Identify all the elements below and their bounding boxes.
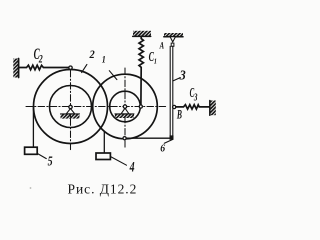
svg-text:B: B (176, 109, 182, 122)
svg-text:6: 6 (160, 143, 166, 155)
svg-text:5: 5 (48, 153, 53, 169)
svg-text:1: 1 (102, 54, 106, 65)
svg-text:2: 2 (89, 49, 96, 62)
svg-text:Рис. Д12.2: Рис. Д12.2 (68, 182, 138, 197)
svg-text:4: 4 (129, 159, 135, 175)
svg-text:1: 1 (154, 58, 157, 66)
svg-text:3: 3 (179, 67, 186, 83)
svg-text:A: A (159, 40, 165, 51)
svg-text:3: 3 (193, 92, 198, 103)
svg-text:2: 2 (38, 53, 43, 66)
